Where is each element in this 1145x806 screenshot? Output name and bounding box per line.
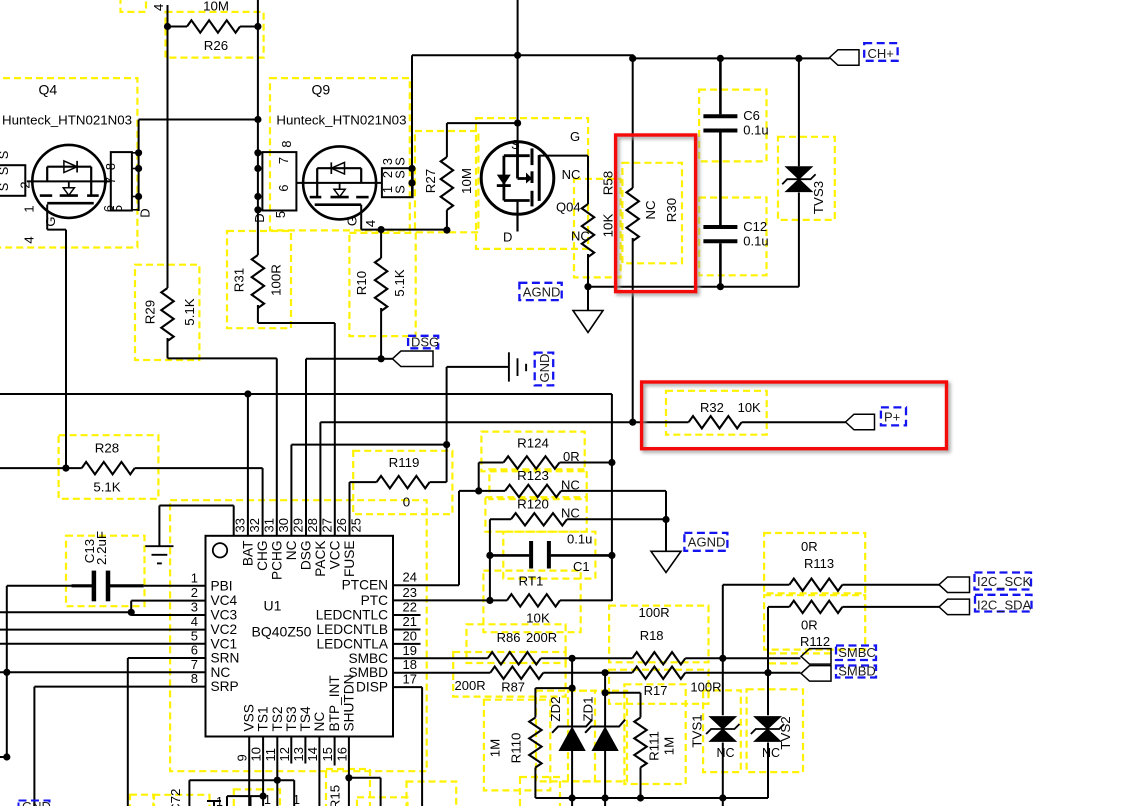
selection box R111 (624, 684, 685, 784)
svg-text:DSG: DSG (299, 541, 314, 571)
svg-text:BQ40Z50: BQ40Z50 (252, 624, 312, 640)
net label CH+ (864, 43, 897, 61)
svg-text:100R: 100R (269, 264, 284, 296)
svg-text:VSS: VSS (242, 704, 257, 731)
svg-text:6: 6 (276, 184, 291, 191)
wire fragment box TS2 (189, 779, 294, 781)
svg-text:TS3: TS3 (284, 706, 299, 731)
selection box C13 (66, 536, 145, 607)
resistor R10 (380, 230, 382, 258)
ground AGND (587, 287, 589, 311)
pin TS4 stub (304, 737, 306, 764)
pin TS3 stub (290, 737, 292, 764)
svg-text:8: 8 (279, 140, 294, 147)
svg-text:0.1u: 0.1u (743, 123, 768, 138)
selection box ZD2 (536, 691, 595, 782)
wire fragment TS1 (227, 795, 263, 797)
selection box Q9 (270, 78, 410, 230)
svg-text:0: 0 (403, 495, 410, 510)
svg-text:5.1K: 5.1K (392, 269, 407, 296)
svg-text:1M: 1M (662, 737, 677, 755)
svg-text:R10: R10 (354, 271, 369, 295)
svg-text:D: D (252, 213, 267, 222)
svg-text:10M: 10M (459, 168, 474, 194)
resistor R30 (632, 58, 634, 188)
svg-text:4: 4 (22, 236, 37, 243)
svg-text:R58: R58 (601, 171, 616, 195)
resistor R27 (447, 122, 518, 124)
svg-text:8: 8 (103, 163, 118, 170)
svg-text:PTC: PTC (361, 593, 388, 608)
wire VC4/VC3 (131, 600, 205, 602)
svg-text:NC: NC (312, 712, 327, 732)
net label P+ (881, 407, 906, 425)
selection box TVS3 (778, 137, 835, 220)
selection box C72 partial (153, 795, 209, 806)
Q4 source box (0, 165, 25, 196)
selection box C1 (503, 532, 595, 579)
svg-text:TVS2: TVS2 (778, 716, 793, 749)
svg-text:LEDCNTLB: LEDCNTLB (317, 622, 389, 637)
selection box R32 (666, 391, 767, 435)
svg-text:R29: R29 (143, 300, 158, 324)
resistor R26 (168, 26, 188, 28)
svg-text:S: S (511, 137, 520, 152)
thermistor RT1 (490, 599, 507, 601)
svg-text:NC: NC (717, 746, 735, 760)
svg-text:R123: R123 (517, 468, 549, 483)
svg-text:200R: 200R (526, 630, 557, 645)
svg-text:BAT: BAT (240, 540, 255, 566)
svg-text:23: 23 (403, 585, 417, 600)
svg-text:22: 22 (403, 600, 417, 615)
svg-text:TS1: TS1 (256, 706, 271, 731)
svg-text:R124: R124 (517, 436, 549, 451)
svg-text:S: S (393, 170, 408, 179)
svg-text:R32: R32 (700, 400, 724, 415)
selection box Q4 (0, 78, 137, 247)
svg-text:R112: R112 (800, 634, 830, 649)
svg-text:S: S (393, 185, 408, 194)
svg-text:10: 10 (249, 747, 264, 761)
selection box R15 partial (326, 769, 370, 806)
svg-text:0R: 0R (801, 539, 818, 554)
svg-text:P+: P+ (884, 410, 900, 425)
net label AGND2 (684, 533, 727, 551)
svg-text:2: 2 (191, 585, 198, 600)
diode TVS3 (798, 58, 800, 166)
svg-text:DISP: DISP (356, 680, 388, 695)
svg-text:TS2: TS2 (270, 706, 285, 731)
svg-text:NC: NC (562, 167, 581, 182)
ground GND (447, 366, 509, 368)
svg-text:R18: R18 (640, 628, 664, 643)
resistor R29 (161, 288, 173, 341)
svg-text:SMBC: SMBC (348, 651, 388, 666)
svg-text:11: 11 (263, 748, 278, 762)
svg-text:S: S (0, 151, 11, 160)
selection box R28 (59, 435, 159, 499)
svg-text:1: 1 (216, 795, 223, 806)
svg-text:LEDCNTLC: LEDCNTLC (316, 608, 388, 623)
svg-text:VC3: VC3 (211, 608, 238, 623)
capacitor C12 (703, 225, 737, 229)
selection box R112 (764, 595, 865, 649)
highlight box 1 (R58/R30) (618, 137, 698, 294)
svg-text:AGND: AGND (688, 535, 726, 550)
selection box R31 (227, 231, 291, 328)
net label partial (19, 801, 50, 806)
svg-text:25: 25 (348, 518, 363, 532)
resistor R28 (0, 467, 82, 469)
selection dash SMBC wire (769, 652, 832, 654)
wire DISP (393, 686, 422, 688)
wire BAT pin (247, 394, 249, 536)
net label I2C_SCK (975, 573, 1032, 590)
diode TVS2 (767, 673, 769, 716)
svg-text:R119: R119 (389, 455, 420, 470)
selection box RT1 (483, 571, 580, 633)
selection box Q04 (476, 118, 588, 249)
svg-text:13: 13 (291, 747, 306, 761)
svg-text:NC: NC (561, 478, 580, 493)
wire PTC (393, 599, 490, 601)
selection box R58 (574, 179, 621, 278)
svg-text:4: 4 (191, 614, 198, 629)
selection box R123 (489, 469, 586, 499)
svg-text:NC: NC (643, 200, 658, 220)
wire SRP (34, 686, 205, 688)
selection box U1 (170, 500, 427, 771)
svg-text:VC4: VC4 (211, 593, 238, 608)
svg-text:D: D (503, 230, 512, 245)
selection box R119 (353, 451, 452, 514)
svg-text:G: G (344, 216, 359, 226)
resistor R124 (478, 463, 480, 491)
svg-text:ZD2: ZD2 (548, 696, 563, 721)
capacitor C13 (7, 585, 72, 587)
svg-text:I2C_SDA: I2C_SDA (977, 598, 1032, 613)
svg-text:24: 24 (403, 570, 417, 585)
svg-text:CHG: CHG (255, 541, 270, 571)
wire TS2 (276, 737, 278, 806)
resistor R123 (479, 490, 505, 492)
svg-text:G: G (570, 129, 580, 144)
wire R26 right vertical / Q9 drain rail (257, 0, 259, 211)
wire SHUTDN (348, 737, 350, 806)
Q9 source box (382, 168, 413, 197)
resistor R58 (587, 156, 589, 204)
svg-text:7: 7 (276, 157, 291, 164)
svg-text:10M: 10M (203, 0, 229, 14)
selection box R113 (764, 533, 865, 593)
svg-text:R120: R120 (517, 497, 549, 512)
svg-text:1M: 1M (488, 739, 503, 757)
resistor R87 (393, 672, 490, 674)
selection box R120 (485, 497, 586, 532)
svg-text:31: 31 (261, 518, 276, 532)
svg-text:0.1u: 0.1u (743, 234, 768, 249)
wire VC1 (0, 643, 206, 645)
selection box ZD1 (568, 691, 627, 782)
net flag SMBD (801, 666, 831, 682)
svg-text:C6: C6 (743, 108, 760, 123)
svg-text:R30: R30 (664, 198, 679, 222)
wire NC pin30 (291, 444, 446, 446)
net flag I2C_SCK (939, 577, 970, 593)
wire VC2 (0, 629, 206, 631)
resistor R86 (393, 657, 488, 659)
net label I2C_SDA (975, 595, 1032, 612)
net flag P+ (846, 414, 875, 430)
svg-text:GND: GND (22, 799, 51, 806)
svg-text:VC1: VC1 (211, 636, 238, 651)
wire net-4 vertical (167, 5, 169, 288)
svg-text:C72: C72 (168, 789, 183, 806)
svg-text:ZD1: ZD1 (581, 696, 596, 721)
svg-text:100R: 100R (639, 605, 670, 620)
net label DSG (408, 336, 438, 349)
svg-text:9: 9 (235, 754, 250, 761)
resistor R32 (689, 416, 742, 428)
svg-text:D: D (138, 208, 153, 217)
svg-text:29: 29 (291, 518, 306, 532)
svg-text:S: S (393, 157, 408, 166)
svg-text:32: 32 (247, 518, 262, 532)
svg-text:VCC: VCC (327, 540, 342, 569)
svg-text:R15: R15 (328, 785, 343, 806)
wire AGND row (588, 286, 799, 288)
svg-text:7: 7 (103, 177, 118, 184)
svg-text:SMBD: SMBD (838, 664, 876, 679)
svg-text:0.1u: 0.1u (567, 532, 592, 547)
svg-text:2.2uF: 2.2uF (94, 531, 109, 565)
net flag DSG (392, 351, 433, 367)
svg-text:5.1K: 5.1K (93, 480, 120, 495)
svg-text:R17: R17 (644, 683, 668, 698)
selection box frag5 (520, 777, 560, 806)
svg-text:4: 4 (151, 4, 166, 11)
selection box R17 (609, 670, 709, 704)
svg-text:SHUTDN: SHUTDN (341, 674, 356, 731)
svg-text:R113: R113 (804, 556, 834, 571)
svg-text:4: 4 (363, 220, 378, 227)
selection box C6 (699, 90, 766, 162)
wire Q4 drain to Q9 drain (139, 119, 258, 121)
svg-text:R28: R28 (95, 441, 119, 456)
resistor R31 (257, 211, 259, 255)
capacitor C1 (490, 554, 529, 557)
svg-text:21: 21 (403, 614, 417, 629)
capacitor C6 (719, 58, 722, 114)
svg-text:1: 1 (191, 571, 198, 586)
resistor R112 (767, 607, 769, 673)
resistor R113 (722, 585, 724, 659)
selection box frag3 (357, 797, 408, 806)
resistor R119 (446, 445, 448, 483)
svg-text:TS4: TS4 (298, 706, 313, 731)
svg-text:R110: R110 (509, 733, 524, 764)
resistor R18 (632, 652, 685, 664)
svg-text:DSG: DSG (411, 335, 439, 350)
selection box R10 (349, 233, 415, 336)
selection box R87 (453, 652, 565, 697)
svg-text:2: 2 (17, 181, 32, 188)
resistor R17 (632, 667, 685, 679)
svg-text:RT1: RT1 (519, 574, 544, 589)
selection box TVS2 (747, 689, 803, 772)
svg-text:0R: 0R (563, 449, 580, 464)
wire NC pin14 (318, 737, 320, 806)
wire BAT rail (0, 393, 612, 395)
svg-text:28: 28 (305, 518, 320, 532)
svg-text:1: 1 (22, 205, 37, 212)
selection box R29 (135, 265, 199, 360)
svg-text:10K: 10K (738, 400, 761, 415)
net flag SMBC (801, 649, 831, 665)
svg-text:10K: 10K (601, 214, 616, 238)
svg-text:SRN: SRN (211, 651, 240, 666)
svg-text:SRP: SRP (211, 679, 239, 694)
selection box TVS1 (703, 690, 741, 772)
svg-text:Q04: Q04 (556, 200, 581, 215)
resistor R120 (489, 519, 491, 555)
svg-text:NC: NC (284, 540, 299, 560)
ground near U1 (159, 505, 233, 507)
svg-text:CH+: CH+ (868, 46, 894, 61)
svg-text:18: 18 (403, 657, 417, 672)
junctions (164, 23, 171, 30)
svg-text:SMBC: SMBC (838, 645, 876, 660)
wire top rail CH+ (412, 55, 830, 58)
svg-text:FUSE: FUSE (342, 541, 357, 578)
resistor R110 (535, 687, 572, 689)
Q04 gate wire to R58 (539, 155, 588, 157)
wire SRN (128, 657, 206, 659)
svg-text:R26: R26 (204, 38, 228, 53)
svg-text:R31: R31 (232, 268, 247, 292)
ground AGND2 (665, 520, 667, 552)
net flag I2C_SDA (939, 599, 970, 615)
svg-text:5: 5 (110, 205, 125, 212)
diode TVS1 (722, 658, 724, 715)
net label SMBC (836, 646, 876, 661)
wire from C13 down (6, 586, 8, 757)
wire PTCEN (393, 584, 459, 586)
transistor Q04 (517, 0, 519, 143)
Q9 drain box (262, 152, 296, 210)
svg-text:3: 3 (191, 600, 198, 615)
svg-text:PTCEN: PTCEN (342, 578, 388, 593)
svg-text:0R: 0R (801, 618, 818, 633)
svg-text:GND: GND (537, 354, 552, 383)
pin BTP_INT stub (334, 737, 336, 766)
resistor R111 (640, 693, 642, 718)
svg-text:1: 1 (293, 793, 300, 806)
svg-text:C1: C1 (573, 559, 590, 574)
svg-text:C12: C12 (743, 219, 767, 234)
svg-text:PACK: PACK (313, 541, 328, 577)
selection box R110 (484, 700, 550, 791)
svg-text:NC: NC (571, 229, 590, 244)
selection box frag4 (407, 782, 457, 806)
svg-text:R86: R86 (497, 630, 521, 645)
selection box frag1 (234, 789, 280, 806)
selection box R27 (415, 131, 478, 232)
svg-text:200R: 200R (455, 678, 486, 693)
svg-text:Hunteck_HTN021N03: Hunteck_HTN021N03 (276, 113, 406, 128)
wire NC pin7 (0, 671, 206, 673)
selection box R18 (609, 606, 708, 663)
svg-text:27: 27 (319, 518, 334, 532)
fragment marks (207, 800, 221, 802)
diode ZD2 (571, 658, 573, 726)
net label SMBD (836, 666, 876, 678)
selection box R26 (166, 12, 264, 58)
svg-text:R27: R27 (423, 169, 438, 193)
selection box R124 (481, 432, 584, 472)
wire VSS (248, 737, 250, 806)
selection box R30 (622, 163, 682, 263)
svg-text:14: 14 (305, 747, 320, 761)
svg-text:12: 12 (277, 747, 292, 761)
wire bottom rail (535, 797, 768, 799)
svg-text:10K: 10K (526, 611, 550, 626)
svg-text:16: 16 (334, 747, 349, 761)
diode ZD1 (604, 673, 606, 727)
svg-text:U1: U1 (264, 598, 282, 614)
net flag CH+ (830, 50, 860, 66)
svg-text:S: S (0, 183, 11, 192)
svg-text:15: 15 (320, 747, 335, 761)
svg-text:26: 26 (334, 518, 349, 532)
IC U1 BQ40Z50 (206, 536, 394, 737)
svg-text:TVS3: TVS3 (811, 181, 826, 214)
Q9 gate wire (360, 205, 362, 230)
svg-text:100R: 100R (690, 680, 721, 695)
wire DSG (306, 358, 381, 360)
svg-text:5.1K: 5.1K (182, 298, 197, 325)
svg-text:5: 5 (273, 211, 288, 218)
svg-text:NC: NC (211, 665, 231, 680)
svg-text:8: 8 (191, 671, 198, 686)
wire TS1 (262, 737, 264, 806)
svg-text:TVS1: TVS1 (690, 714, 705, 747)
svg-text:G: G (43, 216, 58, 226)
svg-text:R111: R111 (647, 731, 662, 761)
wire Q4 drain rail (138, 120, 140, 212)
svg-text:PBI: PBI (211, 579, 233, 594)
selection box frag2 (130, 795, 154, 806)
svg-text:7: 7 (191, 657, 198, 672)
selection box R86 (467, 624, 566, 663)
svg-text:S: S (0, 167, 11, 176)
svg-text:BTP_INT: BTP_INT (327, 675, 342, 732)
svg-text:17: 17 (403, 672, 417, 687)
Q4 gate wire (46, 205, 48, 230)
selection box C12 (699, 198, 766, 276)
svg-text:SMBD: SMBD (348, 665, 388, 680)
highlight box 2 (R32/P+) (644, 384, 949, 451)
svg-text:Q9: Q9 (312, 82, 331, 98)
svg-text:R87: R87 (501, 680, 525, 695)
Q4 drain box (111, 152, 132, 210)
net label AGND (519, 283, 561, 300)
svg-text:VC2: VC2 (211, 622, 238, 637)
svg-text:30: 30 (276, 518, 291, 532)
svg-text:LEDCNTLA: LEDCNTLA (317, 636, 389, 651)
svg-text:AGND: AGND (523, 285, 561, 300)
